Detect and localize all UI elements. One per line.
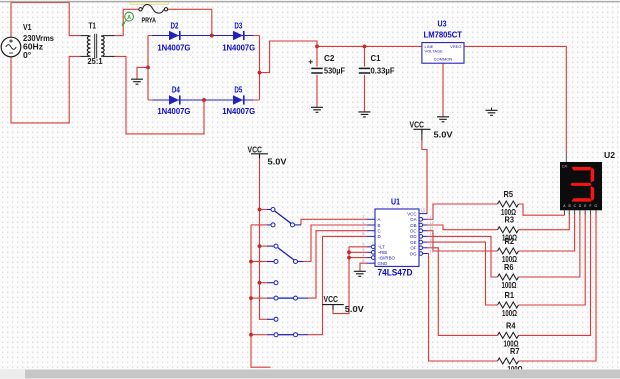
svg-text:~RBI: ~RBI xyxy=(378,250,388,255)
svg-text:A: A xyxy=(378,217,381,222)
svg-text:OF: OF xyxy=(410,246,416,251)
svg-text:U3: U3 xyxy=(438,18,447,28)
svg-text:A: A xyxy=(127,15,131,21)
svg-text:16: 16 xyxy=(420,208,425,213)
svg-text:OD: OD xyxy=(410,234,417,239)
svg-text:G: G xyxy=(595,204,598,208)
svg-text:OC: OC xyxy=(410,229,417,234)
svg-text:B: B xyxy=(378,223,381,228)
svg-text:1N4007G: 1N4007G xyxy=(157,106,190,116)
svg-text:74LS47D: 74LS47D xyxy=(378,267,413,277)
svg-text:COMMON: COMMON xyxy=(434,56,453,61)
svg-text:D2: D2 xyxy=(171,21,179,31)
svg-text:~BI/RBO: ~BI/RBO xyxy=(378,255,396,260)
svg-text:25:1: 25:1 xyxy=(88,56,103,66)
svg-text:R2: R2 xyxy=(505,236,515,246)
svg-text:U1: U1 xyxy=(391,197,400,207)
svg-text:1N4007G: 1N4007G xyxy=(222,106,255,116)
svg-text:5.0V: 5.0V xyxy=(268,157,288,166)
svg-text:U2: U2 xyxy=(604,150,615,160)
svg-text:15: 15 xyxy=(430,243,435,248)
svg-text:530µF: 530µF xyxy=(324,66,345,76)
svg-text:OB: OB xyxy=(410,223,416,228)
svg-text:PRYA: PRYA xyxy=(142,16,157,25)
svg-text:10: 10 xyxy=(430,231,435,236)
svg-text:R4: R4 xyxy=(506,320,516,330)
svg-text:R1: R1 xyxy=(505,290,515,300)
svg-text:5.0V: 5.0V xyxy=(345,305,365,314)
svg-text:14: 14 xyxy=(430,248,435,253)
svg-text:R6: R6 xyxy=(504,262,514,272)
svg-text:F: F xyxy=(590,204,592,208)
svg-text:12: 12 xyxy=(430,220,435,225)
svg-text:1N4007G: 1N4007G xyxy=(222,42,255,52)
svg-text:V1: V1 xyxy=(23,22,32,32)
svg-text:100Ω: 100Ω xyxy=(502,308,517,318)
svg-text:OG: OG xyxy=(410,251,417,256)
svg-text:VCC: VCC xyxy=(324,295,339,304)
svg-text:OA: OA xyxy=(410,217,416,222)
svg-text:LM7805CT: LM7805CT xyxy=(424,29,463,39)
svg-text:0.33µF: 0.33µF xyxy=(371,66,395,76)
svg-text:T1: T1 xyxy=(89,21,97,31)
svg-text:VCC: VCC xyxy=(410,120,425,129)
svg-text:C1: C1 xyxy=(371,53,381,63)
svg-text:GND: GND xyxy=(378,261,388,266)
svg-text:VCC: VCC xyxy=(407,211,416,216)
svg-text:R7: R7 xyxy=(510,346,520,356)
svg-text:VREG: VREG xyxy=(450,44,461,49)
svg-text:1N4007G: 1N4007G xyxy=(157,42,190,52)
svg-text:R3: R3 xyxy=(505,215,515,225)
svg-text:C: C xyxy=(378,229,381,234)
svg-text:D3: D3 xyxy=(234,21,242,31)
svg-text:OE: OE xyxy=(410,240,416,245)
svg-text:D5: D5 xyxy=(234,85,242,95)
svg-text:R5: R5 xyxy=(504,189,514,199)
svg-text:100Ω: 100Ω xyxy=(502,280,517,290)
svg-text:VCC: VCC xyxy=(248,145,263,154)
svg-text:13: 13 xyxy=(430,214,435,219)
svg-text:~LT: ~LT xyxy=(378,245,386,250)
svg-text:D4: D4 xyxy=(172,85,180,95)
svg-text:VOLTAGE: VOLTAGE xyxy=(425,48,444,53)
svg-text:0°: 0° xyxy=(23,50,32,60)
svg-text:C2: C2 xyxy=(324,53,335,63)
svg-text:D: D xyxy=(378,234,381,239)
svg-text:CA: CA xyxy=(562,165,568,169)
svg-text:5.0V: 5.0V xyxy=(434,131,454,140)
